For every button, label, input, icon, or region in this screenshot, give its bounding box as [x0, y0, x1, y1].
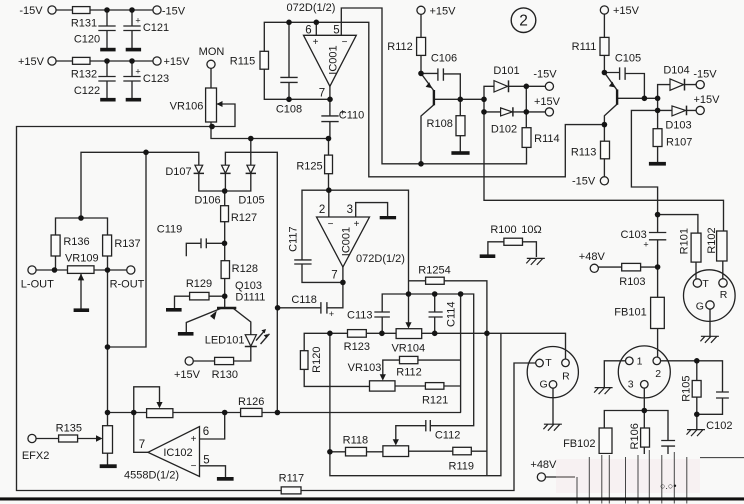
- svg-text:VR103: VR103: [348, 362, 382, 374]
- svg-text:G: G: [696, 300, 704, 312]
- svg-text:R117: R117: [279, 473, 304, 485]
- svg-text:+15V: +15V: [534, 96, 561, 108]
- svg-text:D103: D103: [665, 119, 691, 131]
- svg-text:VR106: VR106: [170, 100, 204, 112]
- svg-text:C119: C119: [157, 223, 182, 235]
- svg-text:R135: R135: [56, 422, 82, 434]
- svg-text:D107: D107: [165, 166, 191, 178]
- svg-text:R120: R120: [311, 347, 323, 373]
- svg-text:-15V: -15V: [693, 68, 717, 80]
- svg-text:R126: R126: [238, 396, 264, 408]
- svg-text:C122: C122: [74, 85, 100, 97]
- svg-text:T: T: [702, 278, 709, 290]
- svg-text:R132: R132: [71, 69, 97, 81]
- svg-text:VR104: VR104: [391, 343, 425, 355]
- svg-text:+15V: +15V: [164, 56, 191, 68]
- svg-text:C112: C112: [435, 429, 460, 441]
- svg-text:+: +: [643, 240, 648, 250]
- svg-text:R101: R101: [679, 228, 691, 254]
- svg-text:R127: R127: [231, 212, 257, 224]
- svg-text:−: −: [328, 219, 334, 230]
- svg-text:C106: C106: [431, 53, 457, 65]
- svg-text:-15V: -15V: [19, 5, 43, 17]
- svg-text:C118: C118: [291, 294, 316, 306]
- svg-text:R102: R102: [706, 227, 718, 253]
- svg-text:−: −: [191, 461, 197, 472]
- svg-text:IC001: IC001: [327, 45, 339, 74]
- svg-text:VR109: VR109: [65, 253, 99, 265]
- svg-text:EFX2: EFX2: [22, 450, 50, 462]
- svg-text:R107: R107: [666, 137, 692, 149]
- svg-text:+: +: [135, 67, 140, 77]
- svg-text:R113: R113: [571, 147, 596, 159]
- svg-text:T: T: [545, 357, 552, 369]
- svg-text:+48V: +48V: [579, 251, 606, 263]
- svg-text:G: G: [540, 379, 548, 391]
- svg-text:+48V: +48V: [530, 459, 557, 471]
- svg-text:R108: R108: [427, 118, 453, 130]
- svg-text:5: 5: [333, 25, 339, 37]
- svg-text:-15V: -15V: [162, 5, 186, 17]
- svg-text:R112: R112: [396, 366, 421, 378]
- svg-text:R1254: R1254: [418, 265, 450, 277]
- svg-text:C120: C120: [74, 34, 100, 46]
- svg-text:D1111: D1111: [235, 291, 265, 303]
- svg-text:+15V: +15V: [694, 94, 721, 106]
- svg-text:D102: D102: [491, 124, 517, 136]
- svg-text:4558D(1/2): 4558D(1/2): [124, 470, 179, 482]
- svg-text:L-OUT: L-OUT: [21, 278, 54, 290]
- svg-text:C113: C113: [347, 309, 372, 321]
- svg-text:C108: C108: [276, 104, 302, 116]
- svg-text:C105: C105: [615, 52, 641, 64]
- svg-text:R130: R130: [212, 369, 238, 381]
- svg-text:+15V: +15V: [613, 5, 640, 17]
- svg-text:C121: C121: [143, 22, 169, 34]
- svg-text:R119: R119: [449, 461, 474, 473]
- svg-text:R118: R118: [343, 434, 368, 446]
- svg-text:C117: C117: [288, 226, 300, 251]
- svg-text:R-OUT: R-OUT: [110, 278, 145, 290]
- svg-text:C102: C102: [706, 420, 732, 432]
- svg-text:6: 6: [203, 426, 209, 438]
- svg-text:C123: C123: [143, 73, 169, 85]
- svg-text:C114: C114: [445, 301, 457, 326]
- svg-text:R111: R111: [572, 41, 597, 53]
- svg-text:R123: R123: [344, 341, 370, 353]
- svg-text:7: 7: [319, 88, 325, 100]
- svg-text:○.○•: ○.○•: [660, 481, 677, 491]
- svg-text:FB102: FB102: [563, 438, 595, 450]
- svg-text:7: 7: [139, 439, 145, 451]
- svg-text:IC102: IC102: [163, 447, 192, 459]
- svg-text:R106: R106: [629, 423, 641, 449]
- svg-text:R: R: [720, 289, 728, 301]
- svg-text:+15V: +15V: [18, 56, 45, 68]
- svg-text:D106: D106: [194, 195, 220, 207]
- svg-text:R112: R112: [387, 41, 412, 53]
- svg-text:072D(1/2): 072D(1/2): [356, 253, 405, 265]
- svg-text:R114: R114: [534, 133, 559, 145]
- svg-text:+: +: [340, 108, 345, 118]
- svg-text:+15V: +15V: [174, 369, 201, 381]
- svg-text:−: −: [342, 37, 348, 48]
- svg-text:072D(1/2): 072D(1/2): [287, 2, 336, 14]
- svg-text:+15V: +15V: [430, 5, 457, 17]
- svg-text:7: 7: [331, 270, 337, 282]
- svg-text:D101: D101: [493, 65, 519, 77]
- svg-text:R137: R137: [114, 238, 140, 250]
- svg-text:2: 2: [319, 204, 325, 216]
- svg-text:2: 2: [519, 13, 528, 30]
- svg-text:+: +: [354, 219, 360, 230]
- svg-text:+: +: [135, 16, 140, 26]
- svg-text:2: 2: [655, 368, 661, 380]
- svg-text:Q103: Q103: [235, 280, 262, 292]
- svg-text:D104: D104: [663, 65, 689, 77]
- svg-text:3: 3: [347, 204, 353, 216]
- svg-text:-15V: -15V: [572, 175, 596, 187]
- svg-text:R: R: [562, 370, 570, 382]
- svg-text:LED101: LED101: [205, 335, 245, 347]
- svg-text:-15V: -15V: [533, 69, 557, 81]
- svg-text:R105: R105: [680, 375, 692, 401]
- svg-text:+: +: [313, 37, 319, 48]
- svg-text:R121: R121: [422, 394, 448, 406]
- svg-text:FB101: FB101: [614, 306, 646, 318]
- svg-text:1: 1: [637, 355, 643, 367]
- svg-text:R131: R131: [71, 18, 97, 30]
- svg-text:R136: R136: [63, 236, 89, 248]
- svg-text:D105: D105: [238, 195, 264, 207]
- svg-text:6: 6: [305, 25, 311, 37]
- svg-text:5: 5: [203, 454, 209, 466]
- svg-text:IC001: IC001: [340, 227, 352, 256]
- svg-text:+: +: [329, 309, 334, 319]
- svg-text:R103: R103: [619, 276, 645, 288]
- svg-text:3: 3: [628, 378, 634, 390]
- svg-text:R128: R128: [232, 263, 258, 275]
- svg-text:R115: R115: [230, 56, 255, 68]
- svg-text:R100: R100: [490, 224, 516, 236]
- svg-text:R129: R129: [186, 278, 212, 290]
- svg-text:MON: MON: [199, 46, 225, 58]
- svg-text:10Ω: 10Ω: [521, 224, 541, 236]
- svg-text:R125: R125: [296, 161, 322, 173]
- svg-text:+: +: [191, 434, 197, 445]
